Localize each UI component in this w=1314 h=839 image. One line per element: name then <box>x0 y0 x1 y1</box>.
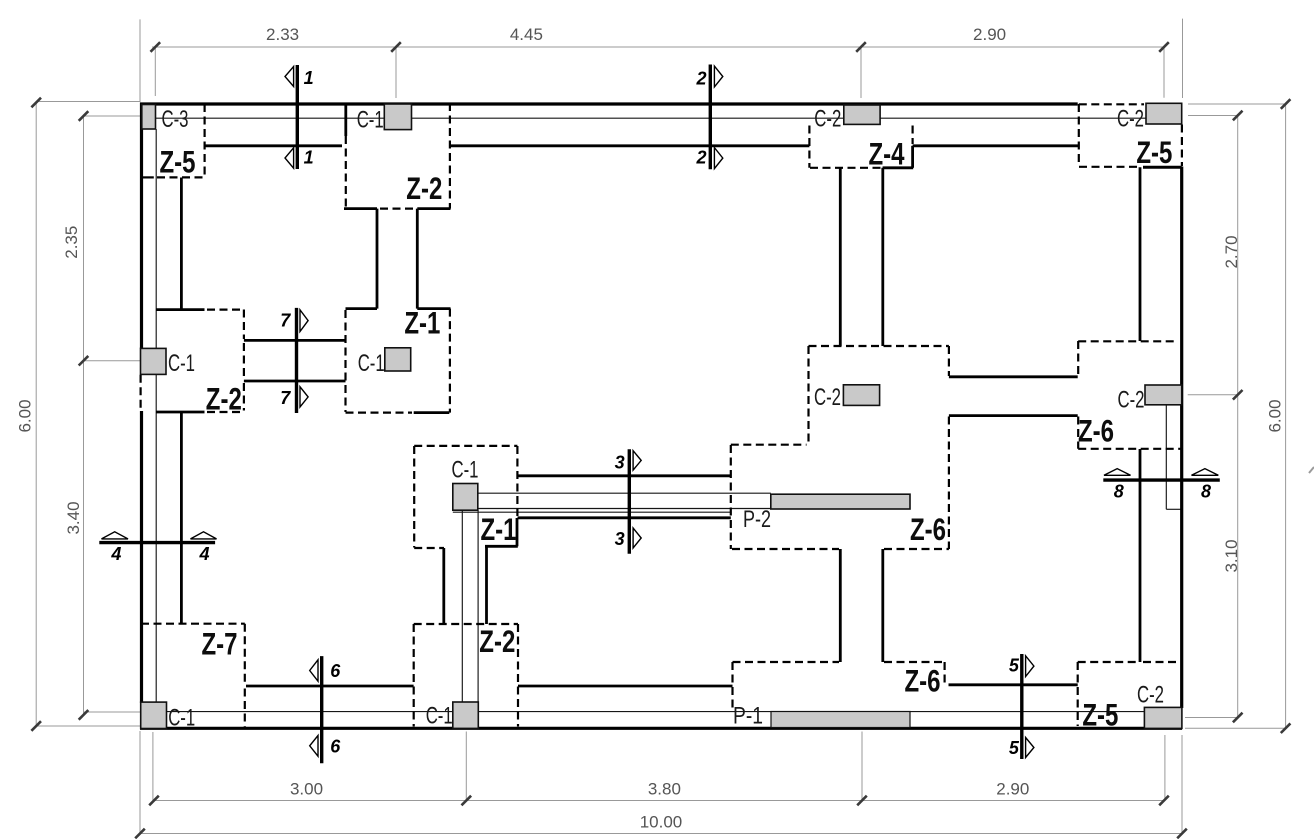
svg-text:Z-5: Z-5 <box>160 144 196 180</box>
svg-text:8: 8 <box>1201 481 1211 501</box>
svg-text:5: 5 <box>1009 656 1020 676</box>
svg-text:P-2: P-2 <box>743 506 771 533</box>
svg-text:2.90: 2.90 <box>996 780 1029 799</box>
svg-text:2.90: 2.90 <box>973 25 1006 44</box>
svg-text:Z-2: Z-2 <box>206 381 242 417</box>
svg-text:10.00: 10.00 <box>640 812 683 831</box>
svg-text:6.00: 6.00 <box>1266 399 1285 432</box>
svg-text:C-3: C-3 <box>162 106 189 133</box>
svg-text:C-1: C-1 <box>357 107 384 134</box>
svg-text:3.80: 3.80 <box>648 779 681 798</box>
svg-text:5: 5 <box>1009 738 1020 758</box>
svg-text:Z-7: Z-7 <box>202 626 238 662</box>
svg-text:2: 2 <box>695 148 706 168</box>
svg-text:Z-4: Z-4 <box>869 135 905 171</box>
svg-text:6: 6 <box>330 661 341 681</box>
svg-text:3.10: 3.10 <box>1222 539 1241 572</box>
svg-text:P-1: P-1 <box>733 703 763 730</box>
svg-text:3.40: 3.40 <box>64 501 83 534</box>
svg-text:7: 7 <box>280 311 291 331</box>
svg-text:Z-2: Z-2 <box>479 623 515 659</box>
svg-text:Z-1: Z-1 <box>404 305 440 341</box>
svg-text:4: 4 <box>110 544 121 564</box>
svg-text:Z-6: Z-6 <box>905 663 941 699</box>
svg-text:Z-6: Z-6 <box>1078 413 1114 449</box>
svg-text:1: 1 <box>304 148 314 168</box>
svg-text:C-1: C-1 <box>168 705 195 732</box>
svg-text:1: 1 <box>304 68 314 88</box>
svg-text:2.35: 2.35 <box>62 226 81 259</box>
svg-text:Z-2: Z-2 <box>406 170 442 206</box>
svg-text:C-2: C-2 <box>814 106 841 133</box>
svg-text:C-2: C-2 <box>1137 682 1164 709</box>
svg-text:C-1: C-1 <box>168 350 195 377</box>
svg-text:3: 3 <box>615 453 625 473</box>
svg-text:6: 6 <box>330 736 341 756</box>
svg-text:2.70: 2.70 <box>1222 235 1241 268</box>
svg-text:8: 8 <box>1114 481 1124 501</box>
svg-text:C-1: C-1 <box>358 350 385 377</box>
svg-text:3.00: 3.00 <box>290 779 323 798</box>
svg-text:Z-6: Z-6 <box>910 511 946 547</box>
svg-text:Z-5: Z-5 <box>1082 697 1118 733</box>
svg-text:C-2: C-2 <box>1117 106 1144 133</box>
svg-text:2.33: 2.33 <box>266 25 299 44</box>
svg-text:C-1: C-1 <box>426 702 453 729</box>
svg-text:3: 3 <box>615 529 625 549</box>
svg-text:Z-1: Z-1 <box>481 511 517 547</box>
svg-text:C-1: C-1 <box>452 456 479 483</box>
svg-text:6.00: 6.00 <box>16 399 35 432</box>
svg-text:Z-5: Z-5 <box>1136 134 1172 170</box>
svg-text:2: 2 <box>695 69 706 89</box>
svg-text:4: 4 <box>198 544 209 564</box>
svg-text:C-2: C-2 <box>814 384 841 411</box>
svg-text:4.45: 4.45 <box>510 25 543 44</box>
svg-text:C-2: C-2 <box>1118 386 1145 413</box>
svg-text:7: 7 <box>280 388 291 408</box>
